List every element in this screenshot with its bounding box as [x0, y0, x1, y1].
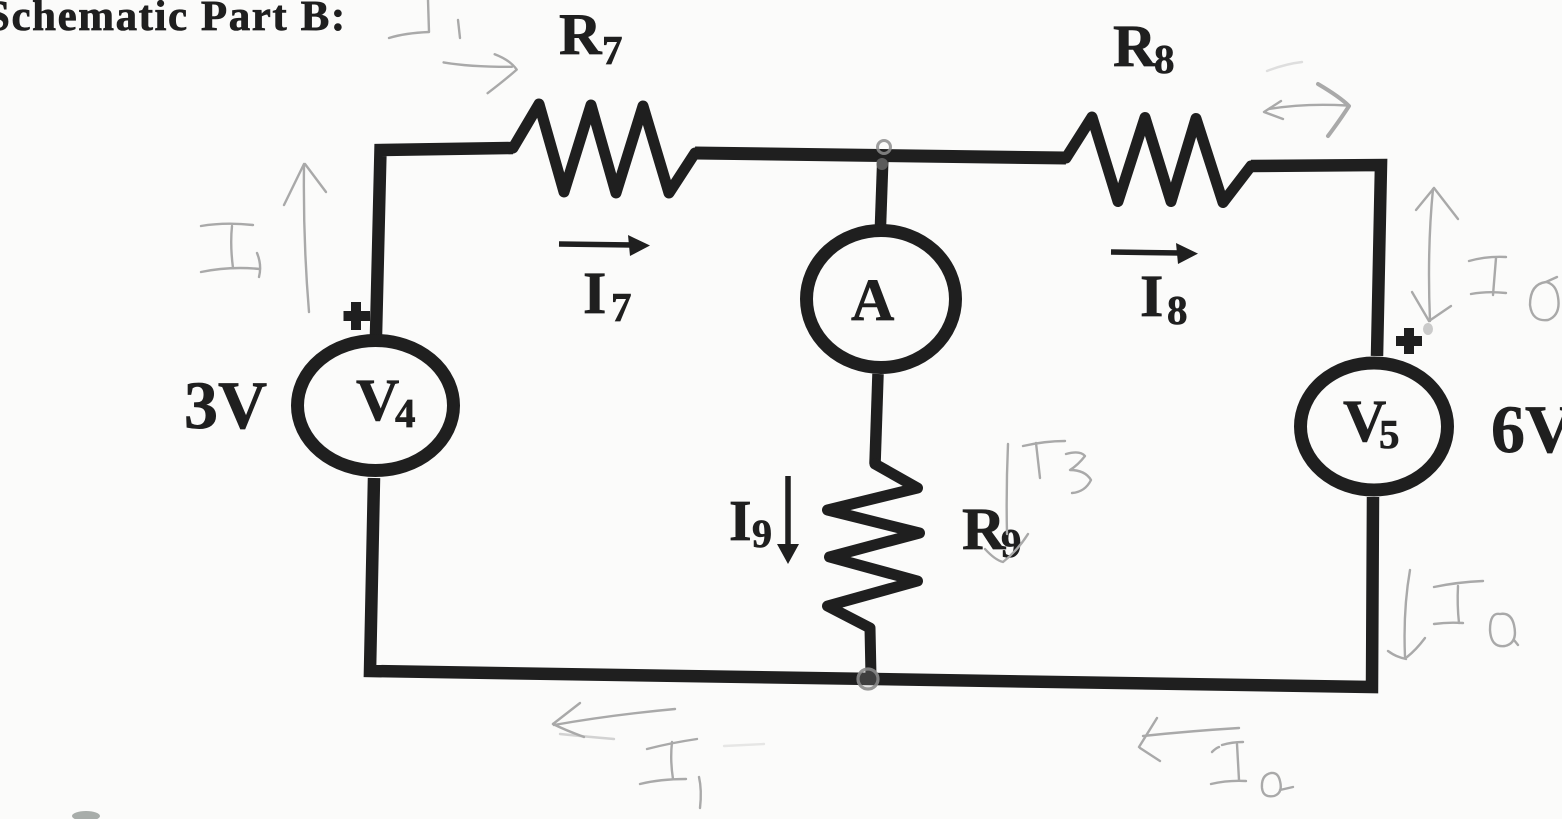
svg-text:5: 5 [1379, 411, 1400, 457]
resistor R9 (vertical) [828, 464, 920, 676]
plus sign of V5 [1396, 328, 1422, 354]
pencil down arrow below V5 [1405, 570, 1410, 657]
pencil double arrow top right [1264, 101, 1283, 119]
arrow I8 [1111, 252, 1181, 253]
svg-text:3V: 3V [184, 367, 267, 443]
pencil tick [458, 20, 460, 38]
svg-text:I: I [583, 260, 606, 326]
voltage source V4 circle [298, 341, 454, 471]
svg-text:8: 8 [1154, 36, 1175, 82]
wire: node to ammeter top [881, 154, 884, 225]
wire: top middle segment R7 to R8 through node [695, 153, 1066, 158]
resistor R8 [1066, 117, 1251, 203]
svg-text:R: R [1113, 13, 1157, 79]
resistor R7 [513, 104, 695, 193]
svg-text:7: 7 [602, 27, 623, 73]
pencil I2 below V5 [1434, 581, 1483, 587]
pencil I2 right of V5 [1469, 257, 1506, 261]
pencil left arrow bottom-right [1143, 728, 1239, 736]
pencil mark top-left corner shape [389, 0, 429, 38]
arrow I7 [559, 244, 633, 245]
svg-text:7: 7 [611, 284, 632, 330]
svg-text:6V: 6V [1491, 391, 1562, 467]
svg-text:I: I [729, 488, 752, 553]
pencil arrow right (above R7 left) [444, 62, 512, 66]
pencil I2 bottom-right [1212, 747, 1219, 752]
svg-text:V: V [356, 367, 399, 433]
bottom edge smudge [72, 811, 100, 819]
svg-text:Schematic Part B:: Schematic Part B: [0, 0, 347, 40]
wire: left vertical from V4 top up to top-left corner, then top wire to R7 [376, 148, 513, 335]
svg-text:9: 9 [1001, 520, 1022, 566]
voltage source V5 circle [1301, 363, 1448, 490]
node dot bottom (grey ring at junction) [858, 669, 878, 689]
node dot top (grey ring at junction) [878, 141, 891, 154]
svg-text:R: R [559, 1, 603, 67]
pencil I1 left [201, 224, 253, 226]
pencil I3 [1023, 441, 1065, 446]
ammeter A circle [807, 231, 956, 368]
plus sign of V4 [344, 302, 371, 330]
wire: V5 bottom down, bottom wire, left vertical up to V4 bottom [370, 478, 1373, 687]
svg-text:R: R [962, 496, 1006, 562]
pencil down arrow near R9 [1007, 444, 1008, 534]
pencil vertical double arrow right of V5 [1429, 189, 1433, 321]
svg-text:9: 9 [752, 511, 772, 556]
svg-text:8: 8 [1167, 287, 1188, 333]
pencil I1 bottom [647, 739, 697, 749]
pencil left arrow bottom-left [554, 709, 675, 725]
faint mark above bottom I1 [724, 744, 764, 746]
wire: top right segment and right vertical down to V5 [1251, 165, 1381, 356]
svg-text:I: I [1140, 263, 1163, 329]
arrow I9 (down) [785, 476, 791, 546]
svg-text:A: A [851, 267, 894, 333]
pencil up arrow left [304, 165, 309, 312]
svg-text:4: 4 [395, 390, 416, 436]
wire: ammeter bottom to R9 [875, 374, 878, 464]
